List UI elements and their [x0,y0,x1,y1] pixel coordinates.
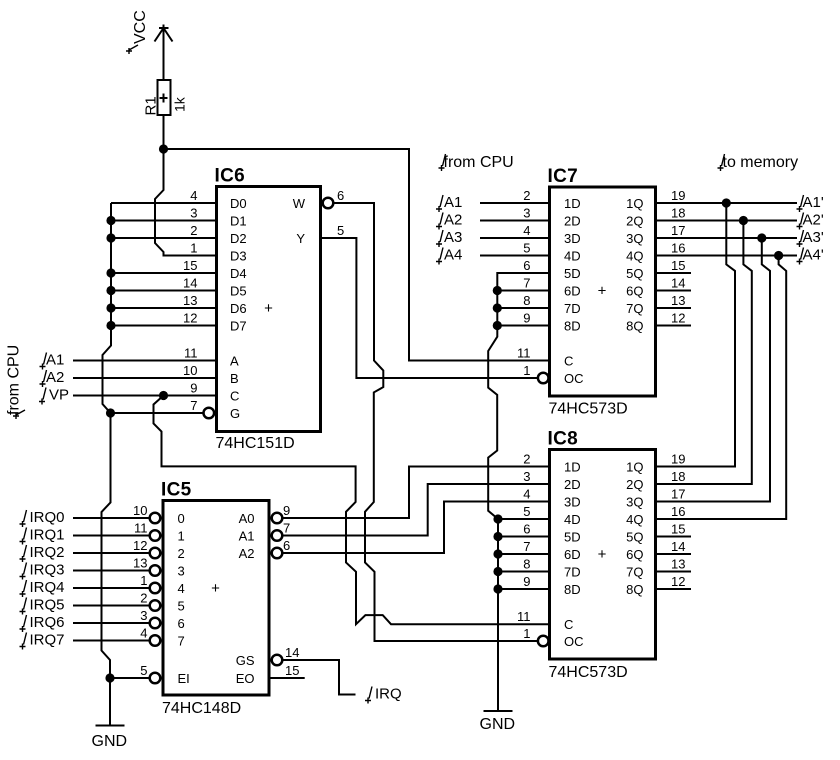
inversion bubble IC5 A2 [272,548,283,559]
svg-text:0: 0 [178,511,185,526]
svg-text:from CPU: from CPU [444,154,514,171]
net label A1 [40,353,47,370]
wire IRQ1 to IC5 input 1 [73,535,150,537]
svg-text:74HC151D: 74HC151D [216,435,295,452]
svg-text:11: 11 [184,346,198,361]
net label IRQ4 [20,580,27,597]
svg-text:18: 18 [671,469,685,484]
IC5 pin names [178,511,255,686]
svg-text:2Q: 2Q [626,477,643,492]
net label A2' [797,213,804,230]
svg-text:74HC573D: 74HC573D [549,664,628,681]
wire IC8 5D pin 6 [498,536,550,538]
svg-text:11: 11 [134,521,148,536]
svg-text:5: 5 [140,663,147,678]
svg-text:4: 4 [140,626,147,641]
svg-text:EO: EO [236,671,255,686]
svg-text:74HC148D: 74HC148D [162,700,241,717]
svg-text:IC6: IC6 [215,166,245,187]
svg-text:IRQ0: IRQ0 [30,509,65,526]
svg-text:6D: 6D [564,284,581,299]
svg-text:2D: 2D [564,214,581,229]
svg-text:A3': A3' [803,229,824,246]
svg-text:13: 13 [183,293,197,308]
svg-text:6Q: 6Q [626,547,643,562]
svg-text:+: + [264,300,273,317]
net label IRQ2 [20,545,27,562]
junction A2' node [739,216,748,225]
svg-text:8Q: 8Q [626,319,643,334]
svg-text:1: 1 [178,529,185,544]
svg-text:VP: VP [49,387,69,404]
svg-text:D5: D5 [230,284,247,299]
wire IC7 7Q stub [656,307,692,309]
wire A2 to IC6 B pin 10 [73,377,217,379]
wire IRQ3 to IC5 input 3 [73,570,150,572]
svg-text:OC: OC [564,371,584,386]
ground symbol right [484,710,513,712]
net label A4' [797,248,804,265]
svg-text:A: A [230,354,239,369]
svg-text:5: 5 [523,504,530,519]
svg-text:11: 11 [517,346,531,361]
svg-text:15: 15 [671,522,685,537]
svg-text:2Q: 2Q [626,214,643,229]
wire IRQ4 to IC5 input 4 [73,587,150,589]
net label IRQ [365,687,372,704]
svg-text:13: 13 [671,293,685,308]
wire IC6 D7 pin 12 [111,325,217,327]
svg-text:1: 1 [523,363,530,378]
wire IC7 8Q stub [656,325,692,327]
svg-text:IRQ1: IRQ1 [30,527,65,544]
svg-text:8D: 8D [564,582,581,597]
svg-text:9: 9 [283,503,290,518]
svg-text:3: 3 [140,608,147,623]
wire IC8 8Q stub [656,588,692,590]
wire IC8 7D pin 8 [498,571,550,573]
wire IC5 GS to IRQ label [283,660,356,695]
svg-text:C: C [564,617,573,632]
junction IC7 ground bus dot [493,303,502,312]
wire IRQ7 to IC5 input 7 [73,640,150,642]
inversion bubble IC5 input 4 [150,583,161,594]
wire IC7 7D pin 8 [497,307,549,309]
junction A4' node [774,251,783,260]
net label VP [39,388,46,405]
svg-text:D2: D2 [230,231,247,246]
junction left bus dot 2 [106,233,115,242]
svg-text:IC7: IC7 [548,166,578,187]
IC8 output column to A4' [656,256,787,520]
net label A2 (CPU side) [436,213,443,230]
svg-text:D4: D4 [230,266,247,281]
wire IC8 6D pin 7 [498,553,550,555]
svg-text:A4': A4' [803,247,824,264]
wire IC5 A1 to IC8 2D [283,484,550,536]
svg-text:17: 17 [671,223,685,238]
svg-text:2: 2 [523,188,530,203]
wire R1 bottom to junction [163,115,165,149]
svg-text:4D: 4D [564,249,581,264]
wire IRQ2 to IC5 input 2 [73,552,150,554]
svg-text:2: 2 [178,546,185,561]
junction left bus dot 6 [106,321,115,330]
svg-text:8Q: 8Q [626,582,643,597]
svg-text:2: 2 [523,452,530,467]
svg-text:OC: OC [564,634,584,649]
svg-text:1D: 1D [564,196,581,211]
ground symbol left [96,725,125,727]
svg-text:+: + [598,283,607,300]
svg-text:14: 14 [671,276,685,291]
net label IRQ5 [20,598,27,615]
net label A4 (CPU side) [436,248,443,265]
IC6 pin names [230,196,306,421]
IC5 pin numbers right [283,503,299,678]
net label A3 (CPU side) [436,230,443,247]
net label from CPU (left, rotated) [6,345,26,419]
junction IC7 ground bus dot [493,286,502,295]
IC6 left bus (grounded D inputs) [102,203,112,726]
svg-text:8D: 8D [564,319,581,334]
svg-text:1D: 1D [564,460,581,475]
junction left bus dot 1 [106,216,115,225]
svg-text:4: 4 [190,188,197,203]
svg-text:8: 8 [523,557,530,572]
svg-text:14: 14 [671,539,685,554]
svg-text:B: B [230,371,239,386]
svg-text:7: 7 [178,634,185,649]
svg-text:+: + [211,580,220,597]
IC7 pin numbers right [671,188,685,326]
svg-text:1: 1 [140,573,147,588]
svg-text:GS: GS [236,653,255,668]
net label A3' [797,230,804,247]
svg-text:4Q: 4Q [626,249,643,264]
wire IC6 D5 pin 14 [111,290,217,292]
svg-text:3: 3 [523,206,530,221]
svg-text:14: 14 [285,645,299,660]
net label VCC [126,10,149,54]
wire VP net to IC8 C pin 11 [154,396,550,625]
junction IC8 ground bus dot [493,514,502,523]
svg-text:12: 12 [133,538,147,553]
svg-text:1: 1 [190,241,197,256]
svg-text:3: 3 [523,469,530,484]
svg-text:R1: R1 [143,96,160,115]
svg-text:7: 7 [523,539,530,554]
svg-text:A2': A2' [803,212,824,229]
junction A1' node [722,198,731,207]
svg-text:A3: A3 [444,229,462,246]
inversion bubble IC5 input 5 [150,600,161,611]
wire IC8 6Q stub [656,553,692,555]
svg-text:7: 7 [283,521,290,536]
svg-text:10: 10 [183,363,197,378]
net label IRQ6 [20,615,27,632]
svg-text:10: 10 [133,503,147,518]
inversion bubble IC5 A0 [272,513,283,524]
svg-text:GND: GND [480,716,516,733]
svg-text:VCC: VCC [132,10,149,44]
svg-text:A1: A1 [239,529,255,544]
svg-text:6: 6 [178,616,185,631]
svg-text:IRQ: IRQ [375,686,402,703]
svg-text:5: 5 [337,223,344,238]
svg-text:5D: 5D [564,530,581,545]
junction VCC/R1 node [159,144,168,153]
IC8 output column to A1' [656,203,736,467]
svg-text:6: 6 [337,188,344,203]
svg-text:IRQ2: IRQ2 [30,544,65,561]
svg-text:D1: D1 [230,214,247,229]
wire IRQ0 to IC5 input 0 [73,517,150,519]
junction IC8 ground bus dot [493,567,502,576]
svg-text:1Q: 1Q [626,196,643,211]
wire IC7 6Q stub [656,290,692,292]
junction left bus / G pin [106,408,115,417]
wire IC6 D1 pin 3 [111,220,217,222]
wire IC8 8D pin 9 [498,588,550,590]
wire VP to IC6 C pin 9 [73,395,217,397]
svg-text:A1: A1 [444,194,462,211]
junction A3' node [757,233,766,242]
IC5 74HC148D box [163,501,269,696]
svg-text:A1': A1' [803,194,824,211]
wire A3 to IC7 3D [480,237,550,239]
svg-text:8: 8 [523,293,530,308]
svg-text:C: C [230,389,239,404]
inversion bubble IC5 GS [272,655,283,666]
net label IRQ3 [20,563,27,580]
IC8 output column to A3' [656,238,771,502]
svg-text:4: 4 [178,581,185,596]
svg-text:19: 19 [671,188,685,203]
svg-text:1k: 1k [172,96,188,112]
svg-text:W: W [293,196,306,211]
wire IRQ6 to IC5 input 6 [73,622,150,624]
wire IC8 4D pin 5 [498,518,550,520]
svg-text:Y: Y [296,231,305,246]
svg-text:3D: 3D [564,495,581,510]
svg-text:1: 1 [523,626,530,641]
svg-text:D6: D6 [230,301,247,316]
svg-text:C: C [564,354,573,369]
svg-text:IRQ5: IRQ5 [30,597,65,614]
inversion bubble IC5 input 1 [150,530,161,541]
IC7 74HC573D box [550,187,656,396]
wire IC6 Y output to IC7 OC pin 1 [321,238,539,378]
IC7 grounded input bus to IC8 and GND [488,273,549,711]
svg-text:7D: 7D [564,565,581,580]
wire IC7 1Q to A1' row [656,202,798,204]
svg-text:6D: 6D [564,547,581,562]
IC7 pin numbers left [517,188,531,378]
net label IRQ1 [20,528,27,545]
inversion bubble IC5 EI [150,673,161,684]
svg-text:+: + [598,546,607,563]
svg-text:D3: D3 [230,249,247,264]
wire A2 to IC7 2D [480,220,550,222]
svg-text:4: 4 [523,487,530,502]
wire A4 to IC7 4D [480,255,550,257]
inversion bubble IC5 input 7 [150,635,161,646]
svg-text:A0: A0 [239,511,255,526]
svg-text:6: 6 [523,522,530,537]
inversion bubble IC5 input 2 [150,548,161,559]
svg-text:7: 7 [190,398,197,413]
wire IC6 G pin 7 [111,412,204,414]
svg-text:5: 5 [178,599,185,614]
junction left bus dot 4 [106,286,115,295]
svg-text:A2: A2 [239,546,255,561]
svg-text:12: 12 [671,574,685,589]
wire IC7 4Q to A4' row [656,255,798,257]
IC8 pin numbers left [517,452,531,642]
wire IC5 EI pin 5 [110,677,150,679]
resistor R1 [158,80,171,115]
svg-text:A1: A1 [46,352,64,369]
svg-text:6: 6 [283,538,290,553]
wire IC7 6D pin 7 [497,290,549,292]
svg-text:15: 15 [285,663,299,678]
svg-text:G: G [230,406,240,421]
svg-text:7Q: 7Q [626,301,643,316]
wire IC7 3Q to A3' row [656,237,798,239]
svg-text:GND: GND [92,733,128,750]
svg-text:IC5: IC5 [161,480,192,501]
svg-text:12: 12 [183,311,197,326]
svg-text:17: 17 [671,487,685,502]
wire IC5 A2 to IC8 3D [283,502,550,554]
svg-text:5Q: 5Q [626,530,643,545]
inversion bubble IC5 A1 [272,530,283,541]
svg-text:7D: 7D [564,301,581,316]
svg-text:15: 15 [183,258,197,273]
IC6 pin numbers right [337,188,344,238]
svg-text:18: 18 [671,206,685,221]
inversion bubble IC8 OC [538,636,549,647]
svg-text:6: 6 [523,258,530,273]
IC8 output column to A2' [656,221,752,485]
svg-text:A2: A2 [444,212,462,229]
wire IC6 D6 pin 13 [111,307,217,309]
IC5 pin numbers left [133,503,147,678]
svg-text:19: 19 [671,452,685,467]
svg-text:IRQ7: IRQ7 [30,632,65,649]
svg-text:5: 5 [523,241,530,256]
IC7 pin names [564,196,644,386]
wire IC6 D0 pin 4 [111,202,217,204]
inversion bubble IC5 input 6 [150,618,161,629]
wire IC5 EO stub pin 15 [269,677,305,679]
svg-text:16: 16 [671,241,685,256]
VCC power symbol [155,25,173,81]
junction IC8 ground bus dot [493,584,502,593]
net label A1' [797,195,804,212]
junction left bus dot 5 [106,303,115,312]
wire IC6 D2 pin 2 [111,237,217,239]
svg-text:EI: EI [178,671,190,686]
svg-text:7Q: 7Q [626,565,643,580]
wire A1 to IC7 1D [480,202,550,204]
svg-text:4Q: 4Q [626,512,643,527]
svg-text:IRQ6: IRQ6 [30,614,65,631]
svg-text:A4: A4 [444,247,462,264]
svg-text:IRQ4: IRQ4 [30,579,65,596]
svg-text:9: 9 [190,381,197,396]
junction IC7 ground bus dot [493,321,502,330]
svg-text:4: 4 [523,223,530,238]
svg-text:3: 3 [190,206,197,221]
wire IC7 2Q to A2' row [656,220,798,222]
svg-text:4D: 4D [564,512,581,527]
svg-text:74HC573D: 74HC573D [549,401,628,418]
svg-text:1Q: 1Q [626,460,643,475]
inversion bubble IC6 W [323,198,334,209]
svg-text:3: 3 [178,564,185,579]
svg-text:6Q: 6Q [626,284,643,299]
wire IC6 W output to IC8 OC pin 1 [334,203,538,641]
svg-text:13: 13 [671,557,685,572]
junction left bus dot 3 [106,268,115,277]
wire IC8 7Q stub [656,571,692,573]
svg-text:to memory: to memory [723,154,799,171]
svg-text:IRQ3: IRQ3 [30,562,65,579]
svg-text:D0: D0 [230,196,247,211]
svg-text:IC8: IC8 [548,429,578,450]
inversion bubble IC7 OC [538,373,549,384]
svg-text:3Q: 3Q [626,495,643,510]
wire VCC net jog down to IC6 D3 [155,149,217,256]
svg-text:2D: 2D [564,477,581,492]
svg-text:3Q: 3Q [626,231,643,246]
inversion bubble IC6 G [204,408,215,419]
wire A1 to IC6 A pin 11 [73,360,217,362]
net label IRQ0 [20,510,27,527]
net label IRQ7 [20,633,27,650]
IC6 74HC151D box [217,187,321,432]
junction VP net [159,391,168,400]
wire VCC net to IC7 C pin 11 [164,149,550,361]
svg-text:5D: 5D [564,266,581,281]
svg-text:2: 2 [140,591,147,606]
svg-text:9: 9 [523,311,530,326]
net label A2 [40,370,47,387]
svg-text:9: 9 [523,574,530,589]
svg-text:2: 2 [190,223,197,238]
svg-text:3D: 3D [564,231,581,246]
svg-text:13: 13 [133,556,147,571]
IC8 pin numbers right [671,452,685,590]
svg-text:16: 16 [671,504,685,519]
svg-text:D7: D7 [230,319,247,334]
inversion bubble IC5 input 0 [150,513,161,524]
wire IC8 5Q stub [656,536,692,538]
svg-text:12: 12 [671,311,685,326]
inversion bubble IC5 input 3 [150,565,161,576]
net label A1 (CPU side) [436,195,443,212]
wire IRQ5 to IC5 input 5 [73,605,150,607]
junction IC8 ground bus dot [493,549,502,558]
svg-text:from CPU: from CPU [6,345,23,415]
svg-text:14: 14 [183,276,197,291]
svg-text:7: 7 [523,276,530,291]
wire IC6 D4 pin 15 [111,272,217,274]
svg-text:5Q: 5Q [626,266,643,281]
svg-text:A2: A2 [46,369,64,386]
